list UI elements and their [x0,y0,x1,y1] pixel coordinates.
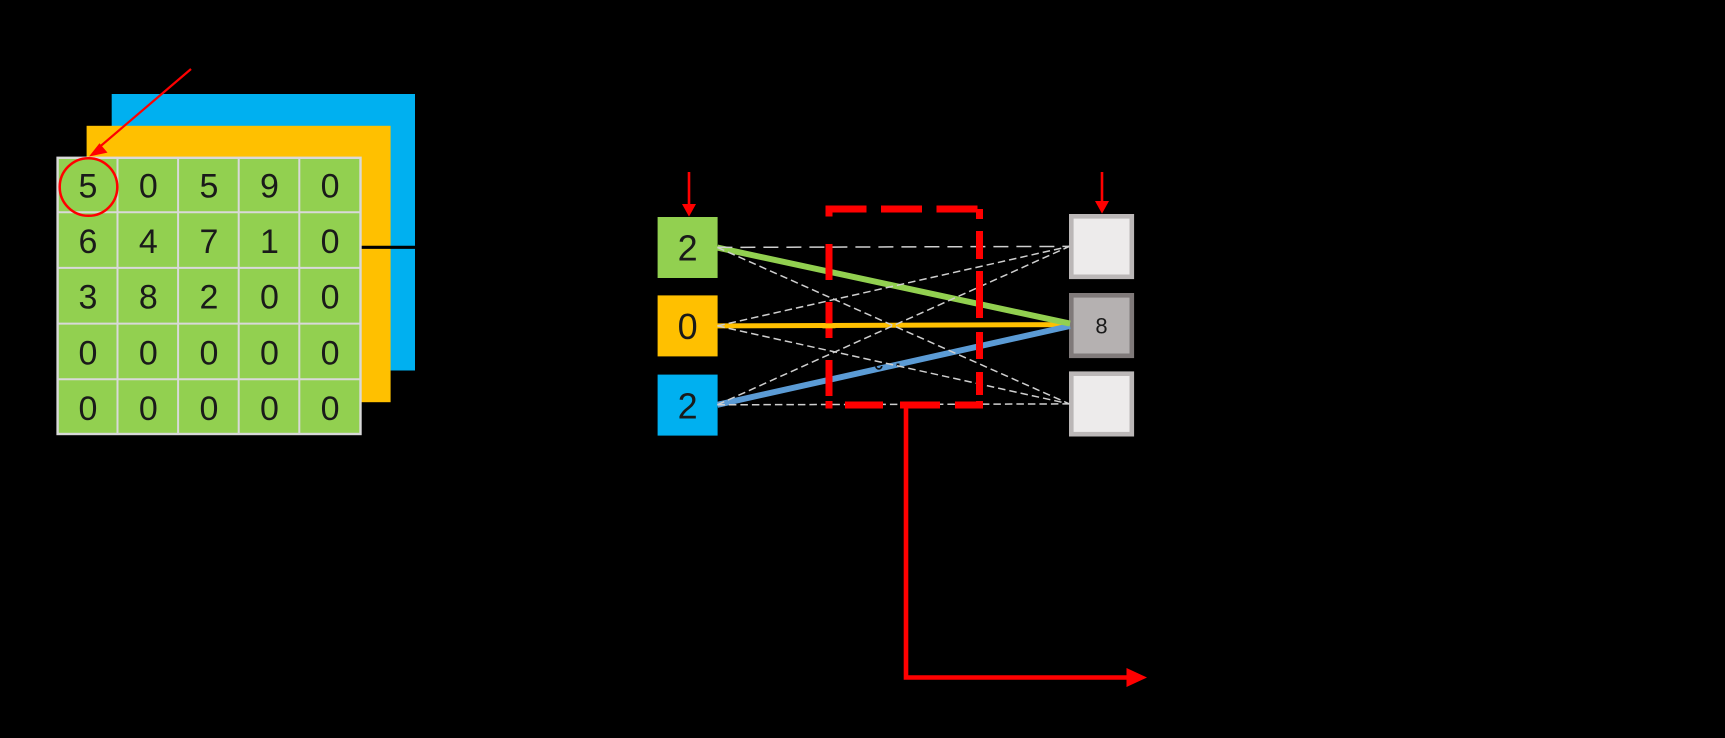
svg-text:8: 8 [139,279,158,317]
dashed connector green to bottom [717,247,1069,404]
red highlight circle on cell 5 [60,158,118,216]
svg-text:0: 0 [260,334,279,372]
svg-text:0: 0 [199,334,218,372]
svg-text:5: 5 [79,167,98,205]
red diagonal arrow to circled cell [89,69,191,157]
svg-text:3: 3 [79,279,98,317]
grid numbers [79,167,340,428]
dashed connector yellow to bottom [717,326,1069,404]
red dashed rectangle bottom edge [826,402,983,409]
svg-text:8: 8 [1095,314,1107,339]
svg-text:0: 0 [321,223,340,261]
svg-text:4: 4 [139,223,158,261]
svg-text:5: 5 [199,167,218,205]
svg-text:2: 2 [678,385,698,426]
blue channel layer [112,94,415,371]
svg-text:0: 0 [139,390,158,428]
hidden formula glyph remnants over blue line [875,366,883,370]
dashed connector blue to top [717,246,1069,404]
dashed connector blue to bottom [717,403,1069,406]
svg-text:0: 0 [678,306,698,347]
red dashed rectangle top edge [826,206,983,213]
red down arrow over green input [682,172,696,217]
thick green weight line [717,248,1070,324]
red down arrow over top output [1095,172,1109,214]
dashed connector yellow to top [717,246,1069,326]
thick blue weight line [717,326,1070,405]
output square top (light) [1071,216,1132,276]
thick yellow weight line [717,325,1070,326]
svg-text:0: 0 [79,334,98,372]
red dashed rectangle left edge [826,206,833,409]
dashed connector green to top [717,246,1069,247]
output square bottom (light) [1071,374,1132,435]
output square middle (dark, value 8) [1071,295,1132,356]
svg-text:0: 0 [260,279,279,317]
svg-text:0: 0 [139,167,158,205]
svg-text:0: 0 [199,390,218,428]
neuron input square blue "2" [658,375,718,436]
svg-text:0: 0 [321,334,340,372]
svg-text:0: 0 [139,334,158,372]
svg-text:0: 0 [79,390,98,428]
svg-text:1: 1 [260,223,279,261]
neuron input square green "2" [658,217,718,278]
yellow channel layer [87,126,391,402]
svg-text:0: 0 [321,167,340,205]
yellow weight line overlap at box left edge [823,323,836,328]
svg-text:9: 9 [260,167,279,205]
red dashed rectangle right edge [976,209,983,409]
red elbow arrow from dashed box [906,405,1147,687]
green grid (input matrix) [57,157,361,435]
svg-text:0: 0 [321,390,340,428]
neuron input square yellow "0" [658,295,718,356]
svg-text:2: 2 [199,279,218,317]
wire: black connector from grid row 2 to neuron input [340,246,658,249]
svg-text:7: 7 [199,223,218,261]
svg-text:6: 6 [79,223,98,261]
svg-text:0: 0 [260,390,279,428]
svg-text:2: 2 [678,228,698,269]
svg-text:0: 0 [321,279,340,317]
